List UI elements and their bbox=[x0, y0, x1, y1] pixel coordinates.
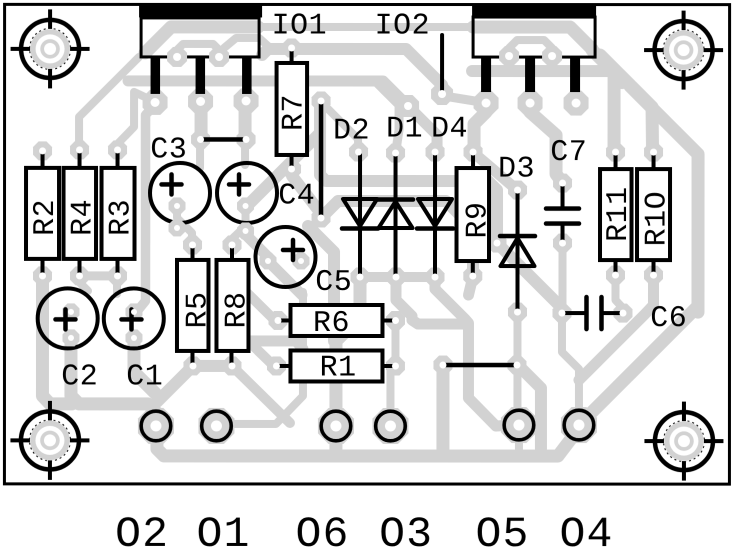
node R7 bottom pad bbox=[282, 159, 301, 178]
svg-text:R6: R6 bbox=[313, 307, 350, 341]
electrolytic cap inner pads bbox=[62, 197, 309, 346]
capacitor C5 body bbox=[255, 227, 315, 287]
node R10 top pad bbox=[644, 143, 663, 162]
resistor R3 leads bbox=[116, 150, 120, 276]
svg-text:R2: R2 bbox=[29, 199, 63, 236]
regulator IO2 leg 3 bbox=[570, 57, 580, 92]
mounting hole bottom-right bbox=[644, 402, 723, 481]
wire IO2 body pads link bbox=[509, 40, 552, 54]
diode D2 lead bbox=[358, 152, 362, 275]
svg-text:R9: R9 bbox=[461, 202, 495, 239]
wire IO1 pin2 to jumper left pad bbox=[195, 102, 208, 138]
node C1 pads bbox=[125, 303, 142, 320]
wire R3 top pad to IO1 pin1 net bbox=[118, 92, 152, 149]
wire trace R4 top to device body bbox=[79, 57, 139, 150]
diode D4 cathode bar bbox=[417, 226, 453, 231]
svg-text:C6: C6 bbox=[650, 302, 687, 336]
wire C4 pad through C5 left pad down bbox=[245, 234, 302, 295]
diode D4 triangle bbox=[418, 199, 452, 226]
node R4 bottom pad bbox=[70, 266, 89, 285]
node C3 pads bbox=[169, 197, 186, 214]
wire R11 bottom to C6 right pad bbox=[615, 276, 622, 312]
svg-text:O4: O4 bbox=[560, 510, 614, 553]
wire jumper W2 top down under wire to C6 area bbox=[320, 104, 562, 310]
svg-text:R1: R1 bbox=[320, 352, 357, 386]
svg-text:C3: C3 bbox=[150, 133, 187, 167]
node jumper W3 right pad bbox=[507, 356, 526, 375]
svg-text:C1: C1 bbox=[126, 360, 163, 394]
node solder pad 01 bbox=[198, 408, 234, 444]
svg-text:C7: C7 bbox=[550, 136, 587, 170]
wire jumper W2 area diag to D2 net vertical bbox=[308, 226, 334, 341]
wire IO2 pad to IO2 pin1 pad bbox=[444, 96, 481, 102]
diode D3 triangle bbox=[501, 238, 535, 266]
svg-text:O2: O2 bbox=[115, 510, 169, 553]
mounting hole bottom-left bbox=[10, 401, 89, 480]
wire D4 bottom to pad 03 bbox=[435, 277, 512, 426]
regulator IO2 body bbox=[473, 17, 595, 57]
node D3 top pad bbox=[508, 181, 527, 200]
node pad ring 03 bbox=[504, 410, 534, 440]
regulator IO1 leg 1 bbox=[151, 57, 161, 94]
node R8 top pad bbox=[223, 235, 242, 254]
node R1 left pad bbox=[267, 356, 286, 375]
svg-text:D3: D3 bbox=[498, 153, 535, 187]
node pad ring 05 bbox=[564, 410, 594, 440]
node R6 left pad bbox=[268, 311, 287, 330]
svg-text:D2: D2 bbox=[333, 114, 370, 148]
wire pad 05 branch to R10 bottom bbox=[579, 277, 654, 380]
node jumper W1 left pad bbox=[191, 130, 210, 149]
wire jumper W3 right pad down to band bbox=[519, 366, 541, 451]
node solder pad 05 bbox=[561, 407, 597, 443]
node C4 pads bbox=[237, 197, 254, 214]
diode D1 cathode bar bbox=[378, 197, 413, 202]
wire C6 left pad to pad 05 bbox=[562, 313, 579, 424]
capacitor C7 leads bbox=[561, 184, 565, 242]
wire R9 bottom into vertical bbox=[468, 277, 472, 295]
node solder pad 02 bbox=[138, 408, 174, 444]
wire D3 pad down to pad 03 bbox=[513, 312, 521, 420]
svg-text:O6: O6 bbox=[296, 510, 350, 553]
capacitor C4 plus bbox=[229, 174, 249, 194]
wire C2 bottom to ground band bbox=[71, 340, 577, 456]
wire jumper W1 bbox=[203, 137, 244, 142]
svg-text:O5: O5 bbox=[476, 510, 530, 553]
wire R6 R1 right pads to pad 06b bbox=[390, 321, 395, 426]
node via on band bbox=[397, 95, 419, 117]
svg-text:D1: D1 bbox=[386, 113, 423, 147]
node IO2 body pad B bbox=[542, 46, 562, 66]
svg-text:R4: R4 bbox=[66, 199, 100, 236]
resistor R9 leads bbox=[471, 152, 475, 276]
wire R5 bottom to R8 bottom bbox=[193, 360, 232, 372]
wire R7 bottom to vertical jumper bottom bbox=[292, 170, 322, 215]
node C6 right pad bbox=[613, 304, 632, 323]
node C7 top pad bbox=[553, 174, 572, 193]
node C5 pads bbox=[260, 252, 277, 269]
node jumper W2 top pad bbox=[312, 91, 331, 110]
resistor R3 body bbox=[102, 168, 135, 259]
wire R4 bottom to R3 bottom bbox=[79, 271, 118, 280]
svg-text:R1O: R1O bbox=[640, 191, 674, 247]
capacitor C3 plus bbox=[162, 174, 182, 194]
svg-text:IO2: IO2 bbox=[375, 10, 431, 44]
diode D3 lead bbox=[515, 190, 519, 309]
wire jumper W2 bbox=[319, 102, 324, 217]
node R1 right pad bbox=[386, 357, 405, 376]
wire R8 bottom diagonal to pad 01 net bbox=[233, 367, 290, 423]
wire vertical jumper top to D2 top pad bbox=[321, 102, 358, 150]
diode D4 lead bbox=[433, 152, 437, 275]
svg-text:R7: R7 bbox=[277, 94, 311, 131]
diode D1 lead bbox=[394, 153, 398, 275]
regulator IO1 leg 2 bbox=[196, 57, 206, 94]
svg-text:R3: R3 bbox=[104, 199, 138, 236]
node R2 bottom pad bbox=[33, 266, 52, 285]
wire IO1 body pads link bbox=[177, 44, 219, 55]
capacitor C7 plates bbox=[546, 209, 579, 224]
node C6 left pad bbox=[552, 304, 571, 323]
wire jumper left pad down to band bbox=[436, 365, 449, 449]
node IO1 body pad A bbox=[167, 47, 187, 67]
wire IO1 pin1 down to C1 top pad bbox=[139, 104, 155, 309]
wire lower band between bodies bbox=[224, 38, 269, 48]
node IO1 body pad B bbox=[209, 47, 229, 67]
node jumper W2 bottom pad bbox=[312, 208, 331, 227]
capacitor C2 body bbox=[38, 288, 98, 348]
wire band behind IO2 legs bbox=[472, 71, 622, 83]
node IO2 wire pad bbox=[431, 83, 453, 105]
resistor R8 body bbox=[216, 260, 248, 351]
wire link D2 D1 D4 bottom pads bbox=[360, 272, 435, 282]
node solder pad 03 bbox=[501, 407, 537, 443]
node IO1 pin2 pad bbox=[188, 89, 213, 114]
regulator IO1 body bbox=[141, 18, 259, 57]
node R7 top pad bbox=[282, 38, 301, 57]
diode D2 cathode bar bbox=[342, 226, 378, 231]
resistor R11 body bbox=[600, 169, 632, 260]
wire R5 bottom to band bbox=[157, 368, 191, 402]
node solder pad 06 bbox=[318, 408, 354, 444]
diode D2 triangle bbox=[343, 199, 377, 226]
regulator IO2 tab bbox=[472, 4, 596, 18]
wire diagonal into R6 left pad bbox=[234, 280, 275, 321]
node D1 top pad bbox=[386, 144, 405, 163]
resistor R2 body bbox=[26, 168, 59, 259]
node IO2 body pad A bbox=[499, 46, 519, 66]
mounting hole top-left bbox=[11, 9, 90, 88]
node via H1 bbox=[488, 234, 507, 253]
svg-text:C5: C5 bbox=[315, 266, 352, 300]
regulator IO2 leg 1 bbox=[481, 57, 491, 92]
regulator body pads bbox=[167, 46, 562, 67]
node R2 top pad bbox=[33, 141, 52, 160]
resistor R4 body bbox=[64, 168, 97, 259]
wire stub below jumper right pad into C4 bbox=[241, 140, 249, 165]
wire stub below jumper left pad bbox=[196, 140, 204, 168]
resistor R10 body bbox=[637, 169, 670, 260]
wire jumper W3 bbox=[444, 363, 516, 368]
node IO1 pin3 pad bbox=[234, 88, 259, 113]
diode D3 cathode bar bbox=[500, 234, 535, 239]
node D2 bottom pad bbox=[350, 267, 369, 286]
capacitor C3 body bbox=[150, 163, 210, 223]
node D4 bottom pad bbox=[425, 268, 444, 287]
node IO2 pin2 pad bbox=[518, 91, 543, 116]
node C7 bottom pad bbox=[553, 234, 572, 253]
node IO1 pin1 pad bbox=[143, 90, 168, 115]
svg-text:R8: R8 bbox=[220, 291, 254, 328]
svg-text:C4: C4 bbox=[278, 179, 315, 213]
wire band through IO1 body bbox=[145, 27, 258, 53]
node solder pad 06b bbox=[372, 408, 408, 444]
wire C7 bottom to C6 left pad bbox=[558, 243, 566, 312]
node R5 bottom pad bbox=[183, 356, 202, 375]
resistor R11 leads bbox=[614, 152, 618, 275]
wire IO2 pin1 to R9 top bbox=[474, 104, 486, 150]
diode D1 triangle bbox=[379, 202, 413, 229]
resistor R9 body bbox=[457, 168, 490, 261]
node jumper W1 right pad bbox=[237, 130, 256, 149]
resistor R7 body bbox=[277, 63, 308, 155]
wire C5 pad down under R6 R1 to pad 01 bbox=[218, 292, 303, 424]
wire D1 bottom to R9 net horizontal bbox=[396, 277, 466, 324]
node R4 top pad bbox=[70, 140, 89, 159]
resistor R5 body bbox=[177, 260, 209, 351]
node R3 top pad bbox=[108, 140, 127, 159]
wire device body to R11 top bbox=[592, 50, 614, 150]
regulator IO1 leg 3 bbox=[242, 57, 252, 94]
node D4 top pad bbox=[426, 143, 445, 162]
capacitor C1 body bbox=[104, 288, 164, 348]
wire R2 bottom into C2 bbox=[42, 276, 72, 404]
capacitor C4 body bbox=[217, 163, 277, 223]
node D2 top pad bbox=[349, 142, 368, 161]
svg-text:IO1: IO1 bbox=[272, 9, 328, 43]
resistor R5 leads bbox=[190, 245, 194, 366]
resistor R8 leads bbox=[229, 245, 234, 366]
wire band R7 top to IO2 pad bbox=[262, 49, 442, 93]
wire jumper W2 bottom to R9 bottom via horizontal bbox=[321, 201, 473, 274]
svg-text:O1: O1 bbox=[197, 510, 251, 553]
svg-text:O3: O3 bbox=[379, 510, 433, 553]
resistor R1 leads bbox=[276, 364, 395, 368]
node R3 bottom pad bbox=[108, 266, 127, 285]
capacitor C6 plates bbox=[586, 297, 601, 329]
resistor R2 leads bbox=[41, 151, 45, 276]
wire pad 05 diagonal to right edge vertical bbox=[583, 307, 697, 421]
wire device body to R10 top bbox=[600, 55, 653, 150]
node pad ring 01 bbox=[202, 411, 232, 441]
mounting hole top-right bbox=[644, 11, 723, 90]
svg-text:R11: R11 bbox=[602, 186, 636, 242]
node D3 bottom pad bbox=[508, 303, 527, 322]
node pad ring 06b bbox=[376, 411, 406, 441]
wire C1 bottom merge to band bbox=[134, 340, 155, 393]
capacitor C1 plus bbox=[121, 309, 141, 329]
resistor R1 body bbox=[290, 350, 382, 381]
wire R4 bottom stub bbox=[79, 277, 88, 291]
electrolytic plus marks bbox=[55, 174, 303, 329]
wire R3 bottom stub bbox=[113, 277, 121, 294]
wire band through IO2 body bbox=[473, 27, 592, 49]
node R9 top pad bbox=[464, 143, 483, 162]
node pad ring 06 bbox=[321, 411, 351, 441]
wire C4 pad to R8 top bbox=[232, 210, 246, 244]
capacitor C5 plus bbox=[283, 240, 303, 260]
node R8 bottom pad bbox=[222, 356, 241, 375]
node pad ring 02 bbox=[141, 411, 171, 441]
wire D2 bottom through pad 06 to band bbox=[336, 277, 360, 449]
svg-text:C2: C2 bbox=[61, 360, 98, 394]
regulator IO1 tab bbox=[139, 4, 262, 18]
wire pad 03 to band bbox=[515, 425, 523, 450]
capacitor C2 plus bbox=[55, 309, 75, 329]
resistor R6 leads bbox=[278, 318, 396, 322]
resistor R10 leads bbox=[652, 152, 656, 275]
resistor R7 leads bbox=[290, 48, 294, 169]
node R11 top pad bbox=[606, 143, 625, 162]
node R9 bottom pad bbox=[463, 267, 482, 286]
svg-text:R5: R5 bbox=[181, 291, 215, 328]
wire IO2 pin2 to C7 top bbox=[530, 105, 562, 182]
wire C3 pad to R5 top bbox=[177, 208, 192, 243]
wire band behind IO1 IO2 labels bbox=[258, 23, 473, 31]
wire R9 top to D3 top bbox=[475, 154, 516, 189]
wire D1 top pad diagonal from band bbox=[376, 82, 399, 150]
wire diagonal into R1 left pad bbox=[242, 335, 274, 366]
wire IO1 pin3 to jumper right pad bbox=[239, 101, 252, 138]
node R11 bottom pad bbox=[606, 266, 625, 285]
wire right edge vertical branch bbox=[630, 86, 698, 312]
wire band behind IO1 legs to D4 top bbox=[128, 81, 437, 150]
regulator IO2 leg 2 bbox=[525, 57, 535, 92]
node IO2 pin1 pad bbox=[474, 91, 499, 116]
node jumper W3 left pad bbox=[433, 356, 452, 375]
wire IO2 pin lead bbox=[440, 35, 444, 92]
svg-text:D4: D4 bbox=[431, 113, 468, 147]
node C2 pads bbox=[62, 303, 79, 320]
node IO2 pin3 pad bbox=[564, 91, 589, 116]
node R6 right pad bbox=[386, 311, 405, 330]
node R10 bottom pad bbox=[644, 266, 663, 285]
node D1 bottom pad bbox=[386, 268, 405, 287]
resistor R6 body bbox=[290, 305, 382, 336]
capacitor C6 leads bbox=[563, 311, 622, 315]
wire C4 pad to W2 top net diagonal bbox=[247, 135, 318, 206]
node R5 top pad bbox=[183, 235, 202, 254]
wire horizontal into C5 vertical bbox=[246, 341, 303, 349]
resistor R4 leads bbox=[78, 150, 82, 276]
